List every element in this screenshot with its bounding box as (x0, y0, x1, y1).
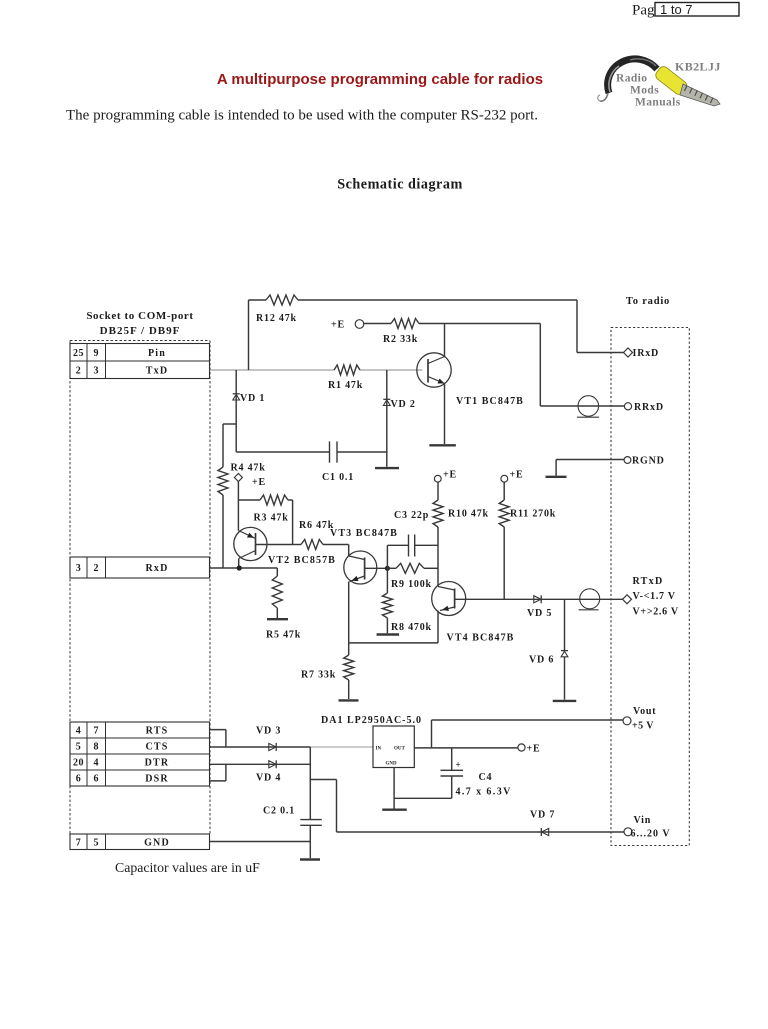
svg-text:V-<1.7 V: V-<1.7 V (633, 591, 676, 602)
svg-text:VT1 BC847B: VT1 BC847B (456, 396, 524, 407)
svg-text:R7 33k: R7 33k (301, 670, 336, 681)
svg-text:DTR: DTR (145, 758, 170, 769)
svg-text:9: 9 (94, 348, 100, 359)
svg-text:Pag: Pag (632, 3, 655, 19)
svg-text:Vin: Vin (634, 815, 652, 826)
svg-text:VT4 BC847B: VT4 BC847B (447, 633, 515, 644)
svg-text:C1 0.1: C1 0.1 (322, 472, 354, 483)
svg-text:+E: +E (443, 470, 457, 481)
svg-text:VT2 BC857B: VT2 BC857B (268, 555, 336, 566)
svg-text:4.7 x 6.3V: 4.7 x 6.3V (456, 787, 512, 798)
svg-text:C2 0.1: C2 0.1 (263, 806, 295, 817)
svg-text:RGND: RGND (632, 456, 665, 467)
svg-text:VD 7: VD 7 (530, 810, 555, 821)
svg-text:20: 20 (73, 758, 84, 769)
svg-text:GND: GND (386, 762, 398, 767)
svg-text:C3 22p: C3 22p (394, 510, 429, 521)
svg-text:GND: GND (144, 837, 170, 848)
svg-text:+: + (456, 760, 461, 770)
svg-text:VD 4: VD 4 (256, 773, 281, 784)
svg-text:+E: +E (527, 744, 541, 755)
svg-text:RRxD: RRxD (634, 402, 664, 413)
svg-text:6...20 V: 6...20 V (631, 829, 671, 840)
svg-text:6: 6 (76, 774, 82, 785)
svg-text:Schematic diagram: Schematic diagram (337, 177, 463, 193)
svg-text:R9 100k: R9 100k (391, 579, 432, 590)
svg-text:KB2LJJ: KB2LJJ (675, 60, 721, 74)
svg-text:To radio: To radio (626, 296, 670, 307)
svg-text:3: 3 (94, 365, 100, 376)
svg-text:3: 3 (76, 563, 82, 574)
svg-text:RxD: RxD (145, 563, 168, 574)
svg-text:Socket to COM-port: Socket to COM-port (86, 310, 193, 322)
svg-text:6: 6 (94, 774, 100, 785)
svg-text:+E: +E (252, 477, 266, 488)
svg-text:DSR: DSR (145, 774, 169, 785)
svg-text:IRxD: IRxD (633, 348, 660, 359)
svg-text:IN: IN (376, 747, 382, 752)
svg-text:Pin: Pin (148, 348, 166, 359)
svg-text:RTxD: RTxD (633, 576, 664, 587)
svg-text:R10 47k: R10 47k (448, 509, 489, 520)
svg-text:5: 5 (76, 742, 82, 753)
svg-text:1 to 7: 1 to 7 (660, 2, 693, 17)
svg-text:5: 5 (94, 837, 100, 848)
svg-text:Mods: Mods (630, 85, 659, 97)
svg-text:4: 4 (76, 726, 82, 737)
svg-text:+E: +E (510, 470, 524, 481)
svg-text:OUT: OUT (394, 747, 406, 752)
svg-text:8: 8 (94, 742, 100, 753)
svg-text:DB25F / DB9F: DB25F / DB9F (100, 325, 181, 337)
svg-text:V+>2.6 V: V+>2.6 V (633, 607, 679, 618)
svg-text:VD 1: VD 1 (240, 393, 265, 404)
svg-text:7: 7 (94, 726, 100, 737)
svg-text:VD 2: VD 2 (391, 399, 416, 410)
svg-text:TxD: TxD (146, 365, 169, 376)
svg-text:R12 47k: R12 47k (256, 313, 297, 324)
svg-text:Radio: Radio (616, 73, 647, 85)
svg-text:25: 25 (73, 348, 84, 359)
svg-text:Capacitor values are in uF: Capacitor values are in uF (115, 860, 260, 875)
svg-text:R1 47k: R1 47k (328, 380, 363, 391)
svg-text:+E: +E (331, 320, 345, 331)
svg-text:C4: C4 (479, 772, 493, 783)
svg-text:DA1 LP2950AC-5.0: DA1 LP2950AC-5.0 (321, 715, 422, 726)
svg-text:7: 7 (76, 837, 82, 848)
svg-text:R3 47k: R3 47k (254, 513, 289, 524)
svg-text:R6 47k: R6 47k (299, 520, 334, 531)
svg-text:R5 47k: R5 47k (266, 630, 301, 641)
svg-text:Manuals: Manuals (635, 97, 681, 109)
svg-text:4: 4 (94, 758, 100, 769)
svg-text:R11 270k: R11 270k (510, 509, 556, 520)
svg-text:CTS: CTS (145, 742, 168, 753)
svg-text:2: 2 (76, 365, 82, 376)
svg-text:+5 V: +5 V (632, 721, 654, 732)
svg-text:R2 33k: R2 33k (383, 334, 418, 345)
svg-text:VD 5: VD 5 (527, 608, 552, 619)
svg-text:VT3 BC847B: VT3 BC847B (330, 528, 398, 539)
svg-text:R4 47k: R4 47k (231, 463, 266, 474)
svg-text:Vout: Vout (633, 706, 656, 717)
svg-text:2: 2 (94, 563, 100, 574)
svg-text:VD 3: VD 3 (256, 726, 281, 737)
svg-text:RTS: RTS (146, 726, 169, 737)
svg-text:The programming cable is inten: The programming cable is intended to be … (66, 108, 538, 124)
svg-text:R8 470k: R8 470k (391, 622, 432, 633)
svg-text:VD 6: VD 6 (529, 655, 554, 666)
svg-text:A multipurpose programming cab: A multipurpose programming cable for rad… (217, 71, 543, 88)
